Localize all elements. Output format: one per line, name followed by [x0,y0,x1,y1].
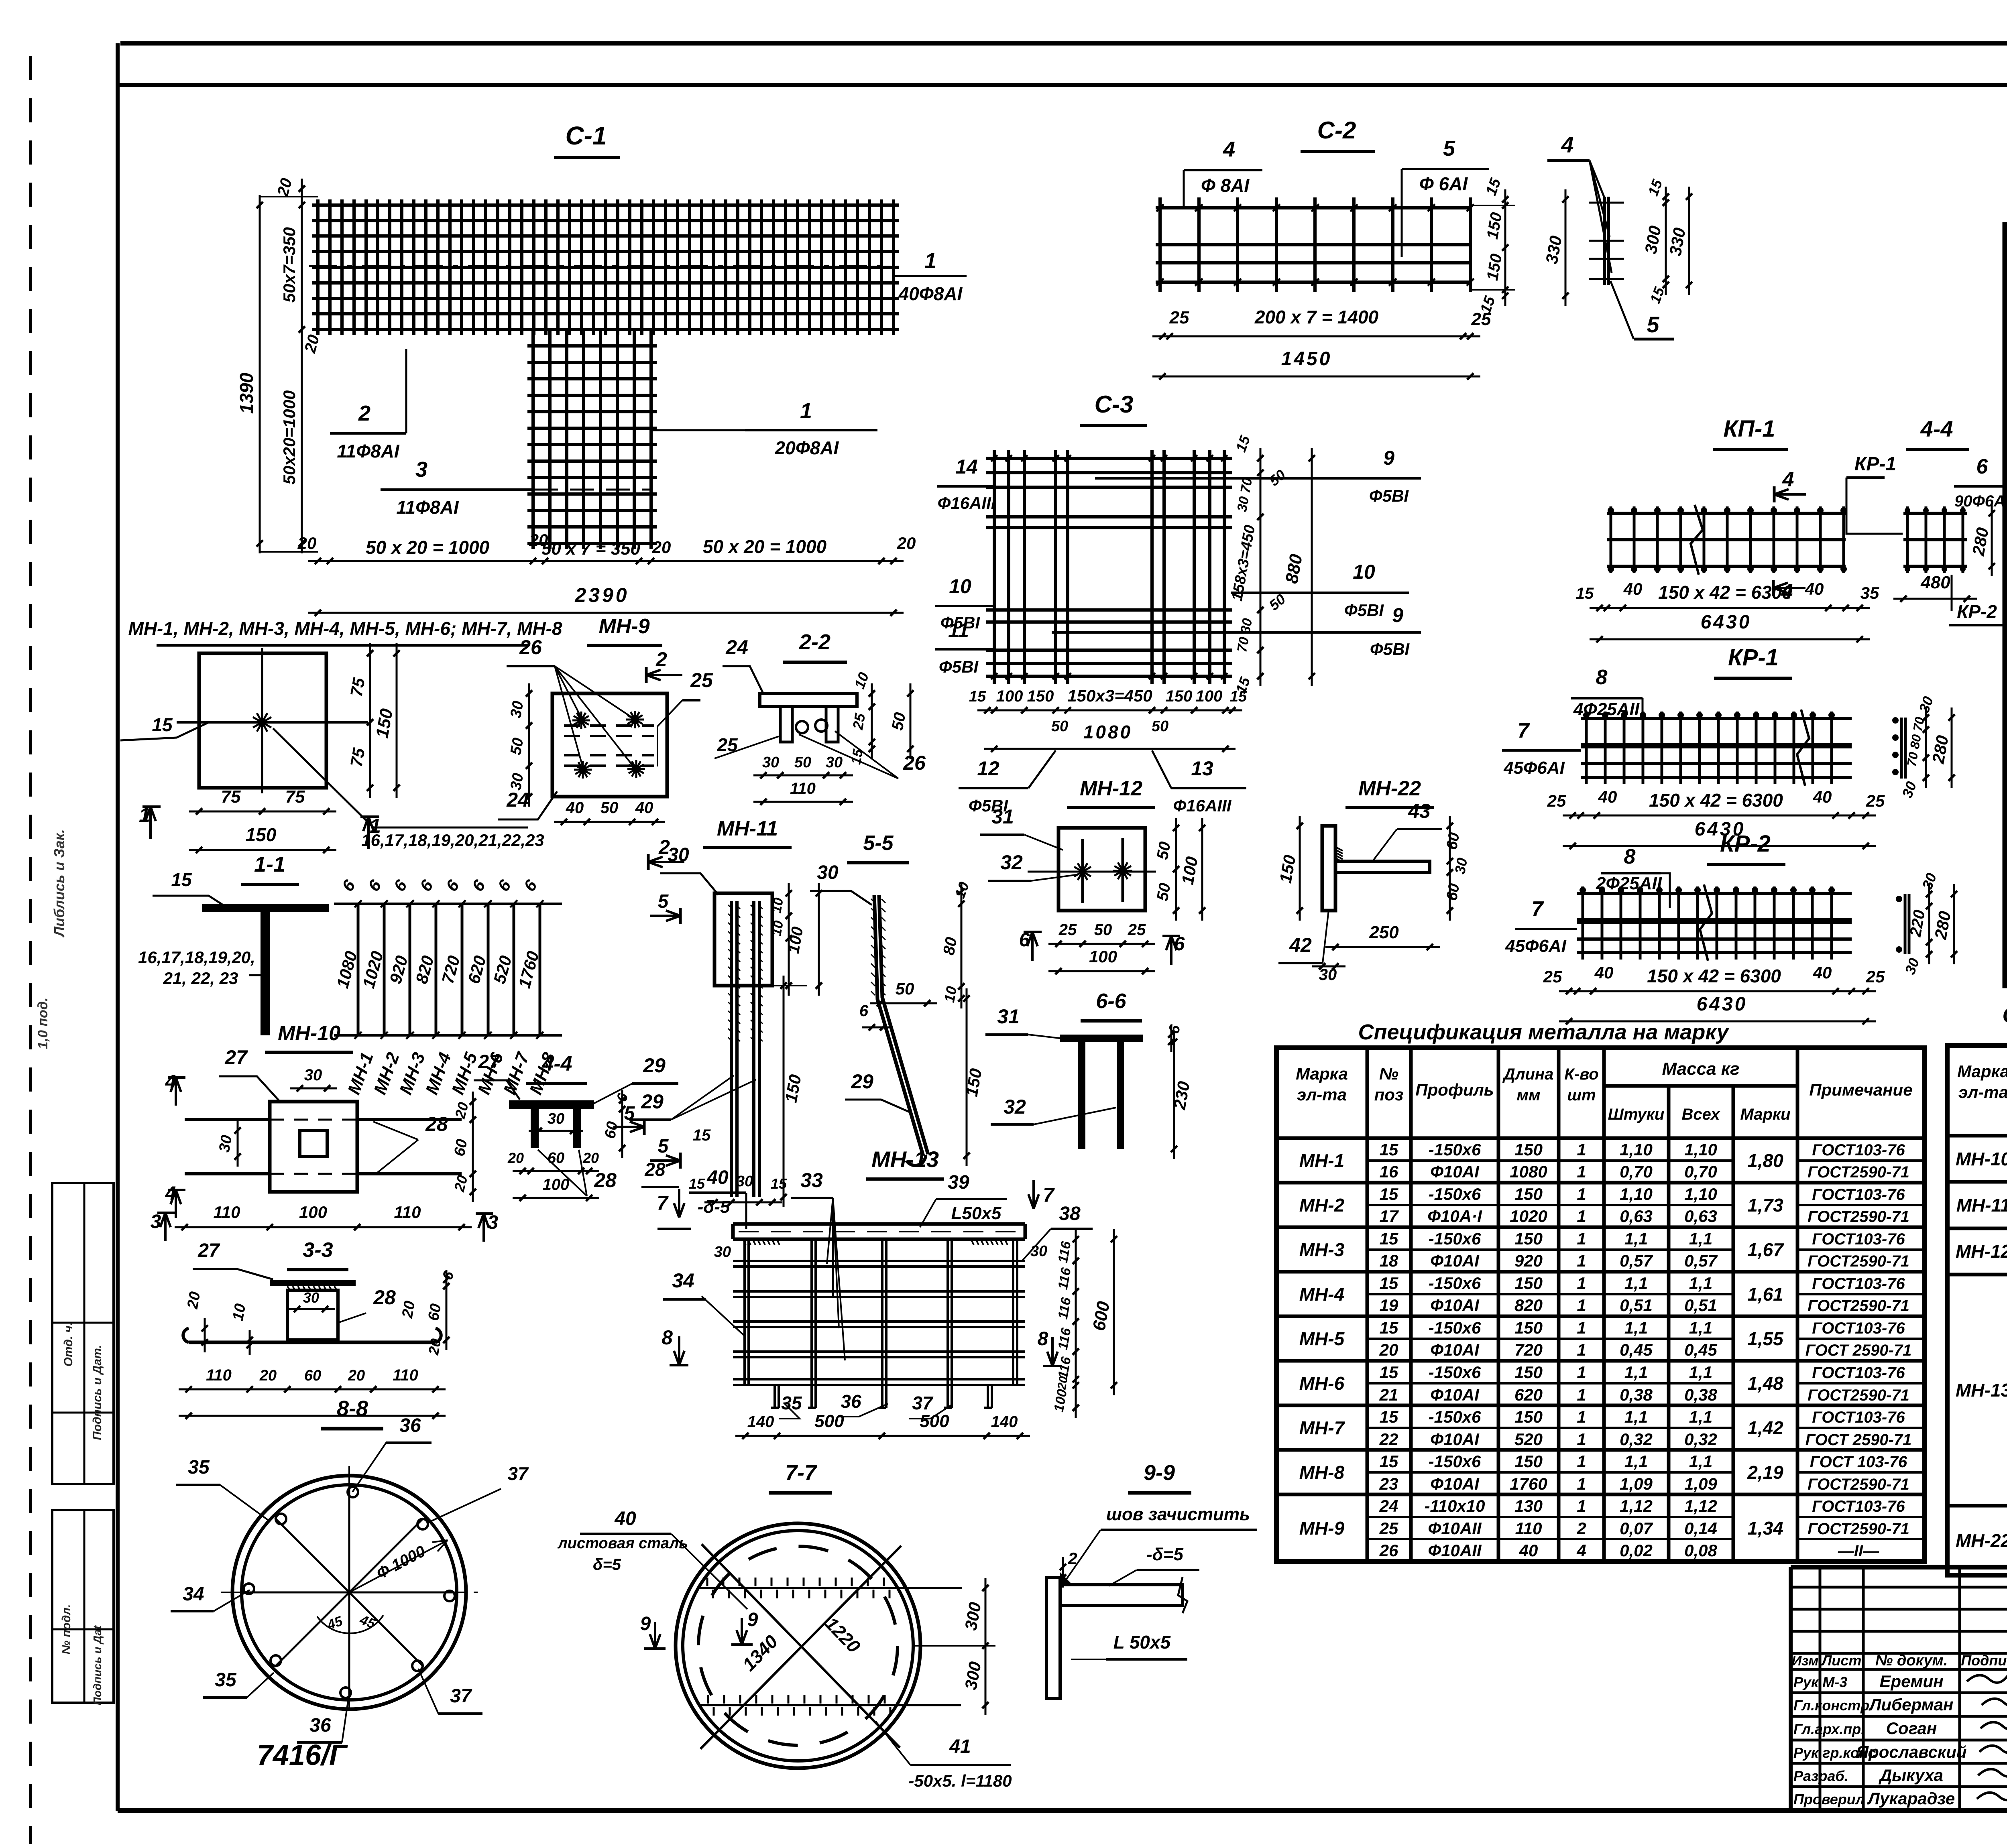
bars list block dividers [2005,450,2007,454]
svg-text:1-1: 1-1 [254,852,285,876]
svg-text:150 х 42 = 6300: 150 х 42 = 6300 [1647,966,1781,986]
svg-text:ГОСТ2590-71: ГОСТ2590-71 [1808,1297,1909,1315]
svg-text:К-во: К-во [1564,1065,1599,1083]
leader 16-23 [273,728,528,827]
svg-text:28: 28 [594,1169,617,1191]
9-9 horizontal plate [1060,1585,1183,1606]
svg-text:30: 30 [304,1066,322,1084]
spec left block lines [1276,1181,1925,1185]
svg-text:4: 4 [1223,137,1235,161]
svg-text:КР-2: КР-2 [1720,831,1771,857]
6-6 legs [1078,1042,1085,1149]
svg-text:поз: поз [1374,1085,1404,1104]
svg-text:40: 40 [1805,579,1824,598]
svg-text:20: 20 [652,538,671,557]
svg-text:КР-1: КР-1 [1728,644,1779,671]
svg-text:20: 20 [507,1150,524,1166]
svg-text:50 х 20 = 1000: 50 х 20 = 1000 [703,536,827,557]
svg-text:6430: 6430 [1697,994,1748,1015]
svg-text:ГОСТ2590-71: ГОСТ2590-71 [1808,1387,1909,1404]
svg-text:16,17,18,19,20,21,22,23: 16,17,18,19,20,21,22,23 [361,831,544,850]
svg-text:75: 75 [285,787,305,807]
svg-text:28: 28 [373,1286,396,1309]
2-2 legs [780,707,792,742]
9-9 weld triangle [1060,1572,1073,1585]
svg-text:920: 920 [1514,1251,1543,1270]
MN-22 horizontal bar [1335,861,1430,872]
svg-text:0,70: 0,70 [1684,1162,1717,1181]
svg-text:19: 19 [1380,1296,1398,1315]
svg-text:7: 7 [657,1192,669,1214]
svg-text:28: 28 [644,1159,666,1180]
svg-text:75: 75 [347,676,369,698]
svg-text:150: 150 [1027,687,1054,705]
9-9 break mark [1178,1577,1187,1613]
svg-text:30: 30 [668,844,689,866]
svg-text:50: 50 [1094,921,1112,939]
MN-10 left dim 30 [237,1120,239,1167]
svg-text:ГОСТ103-76: ГОСТ103-76 [1812,1275,1905,1293]
svg-text:21: 21 [1379,1385,1398,1404]
svg-text:110: 110 [214,1203,240,1222]
svg-text:Ф10АІ: Ф10АІ [1430,1340,1480,1359]
svg-text:0,51: 0,51 [1620,1296,1653,1315]
spec right block lines [1947,1180,2007,1184]
svg-text:Ф 6АІ: Ф 6АІ [1419,173,1468,194]
svg-text:2Ф25АІІ: 2Ф25АІІ [1596,874,1662,893]
MN-11 hooked bars [730,901,733,1197]
sheet inner border top [118,83,2007,87]
svg-text:5: 5 [624,1103,635,1124]
5-5 dim 50 [870,1002,937,1004]
svg-text:-50х5. l=1180: -50х5. l=1180 [908,1771,1012,1790]
svg-text:37: 37 [912,1393,934,1413]
MN-13 rails [733,1260,1025,1262]
7-7 chord bands with hatch [698,1587,962,1589]
svg-text:Проверил: Проверил [1793,1791,1865,1807]
svg-text:20: 20 [425,1338,444,1357]
svg-text:33: 33 [800,1169,823,1191]
svg-text:32: 32 [1003,1096,1026,1118]
svg-text:140: 140 [747,1413,774,1431]
svg-text:30: 30 [548,1110,564,1127]
svg-text:18: 18 [1380,1251,1398,1270]
svg-text:25: 25 [1169,308,1189,327]
svg-text:25: 25 [1866,791,1885,810]
C-3 bottom dim chain [977,710,1242,712]
MN-9 left dims [528,683,530,807]
svg-text:60: 60 [425,1302,445,1322]
svg-text:40: 40 [1813,963,1832,982]
svg-text:-150х6: -150х6 [1429,1363,1481,1382]
svg-text:1,1: 1,1 [1689,1407,1712,1426]
svg-text:7: 7 [1518,719,1530,742]
C-2 section dims 300 330 [1665,187,1667,295]
7-7 cross diagonals [700,1546,901,1749]
svg-text:2390: 2390 [574,584,629,606]
trim edge dashed left [29,56,32,1844]
svg-text:130: 130 [1514,1496,1543,1515]
MN-13 right dims 116 [1075,1229,1077,1418]
mesh C-1 stem grid [531,329,535,549]
svg-text:Ф5ВІ: Ф5ВІ [1369,486,1409,505]
svg-text:Подпись: Подпись [1961,1652,2007,1669]
svg-text:25: 25 [1543,967,1562,986]
svg-text:0,70: 0,70 [1620,1162,1653,1181]
7-7 inner dashed circle [698,1546,898,1745]
KR-1 overall 6430 [1563,845,1876,847]
svg-text:С-1: С-1 [565,121,607,150]
svg-text:-δ=5: -δ=5 [1146,1545,1183,1564]
svg-text:шт: шт [1567,1086,1596,1104]
svg-text:2,19: 2,19 [1747,1462,1783,1483]
svg-text:КР-2: КР-2 [1957,601,1997,622]
svg-text:27: 27 [224,1046,248,1069]
C-3 overall 1080 [984,748,1236,750]
svg-text:20: 20 [184,1290,204,1310]
svg-text:МН-10: МН-10 [1956,1149,2007,1169]
svg-text:26: 26 [1379,1541,1398,1560]
svg-text:75: 75 [347,746,369,768]
mesh C-3 grid [993,450,996,684]
svg-text:эл-та: эл-та [1297,1085,1347,1104]
svg-text:6: 6 [859,1002,869,1020]
svg-text:ГОСТ103-76: ГОСТ103-76 [1812,1498,1905,1515]
svg-text:МН-5: МН-5 [1299,1328,1345,1349]
svg-text:27: 27 [478,1051,501,1073]
svg-text:140: 140 [991,1413,1018,1431]
svg-text:Спецификация металла на мар: Спецификация металла на марку [1358,1020,1730,1044]
svg-text:1,1: 1,1 [1689,1452,1712,1471]
svg-text:32: 32 [1000,851,1023,874]
svg-text:листовая сталь: листовая сталь [557,1535,688,1552]
MN-10 top dim 30 [290,1088,337,1090]
C-2 bottom dims [1152,335,1480,337]
svg-text:35: 35 [215,1669,237,1691]
svg-text:-150х6: -150х6 [1429,1185,1481,1204]
svg-text:41: 41 [949,1736,971,1757]
svg-text:-150х6: -150х6 [1429,1274,1481,1293]
4-4b plate [509,1100,594,1109]
svg-text:1: 1 [1577,1474,1586,1493]
svg-text:МН-22: МН-22 [1956,1530,2007,1551]
svg-text:26: 26 [903,752,926,774]
2-2 hook circles [796,721,808,733]
svg-text:МН-8: МН-8 [1299,1462,1345,1483]
svg-text:0,38: 0,38 [1684,1385,1717,1404]
svg-text:36: 36 [309,1715,331,1736]
spec table right grid [1947,1045,2007,1575]
title block outline [1791,1565,2007,1569]
svg-text:3: 3 [415,457,427,482]
svg-text:ГОСТ103-76: ГОСТ103-76 [1812,1186,1905,1204]
svg-text:Всех: Всех [1681,1106,1720,1123]
svg-text:5: 5 [658,891,669,912]
MN-12 right dims [1175,818,1177,921]
KR-1 break mark [1797,710,1809,786]
svg-text:-150х6: -150х6 [1429,1229,1481,1248]
MN-13 legs [773,1385,776,1408]
svg-text:150 х 42 = 6300: 150 х 42 = 6300 [1649,790,1783,811]
svg-text:30: 30 [303,1289,319,1306]
svg-text:15: 15 [969,688,986,705]
svg-text:25: 25 [1058,921,1077,939]
svg-text:1,42: 1,42 [1747,1417,1783,1438]
svg-text:35: 35 [1860,583,1879,602]
wire 1 axis dash-dot [309,265,893,267]
svg-text:1,48: 1,48 [1747,1373,1783,1394]
3-3 block [287,1290,338,1340]
svg-text:Рук М-3: Рук М-3 [1793,1674,1847,1690]
svg-text:1,10: 1,10 [1684,1185,1717,1204]
svg-text:1: 1 [1577,1340,1586,1359]
svg-text:6-6: 6-6 [1096,990,1126,1013]
svg-text:КР-2: КР-2 [2005,727,2007,748]
svg-text:Марка: Марка [1957,1062,2007,1081]
svg-text:ГОСТ103-76: ГОСТ103-76 [1812,1141,1905,1159]
svg-text:МН-11: МН-11 [1956,1195,2007,1216]
svg-text:50: 50 [1152,718,1168,735]
4-4b dim 30 [529,1130,583,1132]
svg-text:20: 20 [582,1150,599,1166]
KR-2 rails [1577,892,1852,895]
svg-text:Еремин: Еремин [1879,1672,1943,1691]
label 1 40d8AI [894,275,967,277]
2-2 bottom dims [753,775,853,777]
svg-text:Ф16АІІІ: Ф16АІІІ [938,494,996,512]
4-4 dim 480 [1893,598,1977,600]
svg-text:25: 25 [1866,967,1885,986]
svg-text:17: 17 [1380,1207,1399,1226]
svg-text:8: 8 [1596,666,1608,689]
svg-text:1,61: 1,61 [1747,1284,1783,1305]
MN-10 bottom dims [175,1226,472,1228]
svg-text:С-3: С-3 [1095,391,1134,418]
MN-11 dim 150 [783,976,785,1207]
svg-text:0,02: 0,02 [1620,1541,1653,1560]
svg-text:Марка: Марка [1296,1064,1348,1083]
MN-13 bottom dims [735,1435,1030,1437]
svg-text:4: 4 [1576,1541,1586,1560]
svg-text:МН-12: МН-12 [1080,777,1142,800]
3-3 long bar with hooks [189,1341,436,1344]
svg-text:27: 27 [197,1240,220,1261]
svg-text:150: 150 [1514,1407,1543,1426]
section 4-4 mesh [1903,512,1967,515]
svg-text:11: 11 [948,619,969,642]
svg-text:10: 10 [1353,561,1375,583]
KP-1 overall 6430 [1590,638,1870,640]
svg-text:110: 110 [790,780,816,797]
svg-text:20: 20 [259,1367,277,1384]
MN-11 bottom dims [704,1202,782,1204]
svg-text:43: 43 [1408,800,1431,822]
svg-text:10: 10 [230,1302,249,1322]
svg-text:МН-13: МН-13 [871,1147,939,1172]
svg-text:Ф5ВІ: Ф5ВІ [1344,601,1384,620]
svg-text:40: 40 [1594,963,1614,982]
svg-text:мм: мм [1516,1086,1540,1104]
svg-text:50: 50 [794,754,811,771]
svg-text:Подпись и Дат.: Подпись и Дат. [91,1345,104,1440]
svg-text:1: 1 [1577,1452,1586,1471]
svg-text:25: 25 [690,669,713,691]
svg-text:34: 34 [672,1269,694,1292]
svg-text:Ф10АІІ: Ф10АІІ [1428,1541,1482,1560]
svg-text:40: 40 [706,1167,729,1188]
svg-text:34: 34 [183,1584,204,1605]
3-3 dim 30 inside [287,1308,335,1310]
svg-text:40: 40 [635,799,653,817]
svg-text:39: 39 [948,1172,969,1193]
svg-text:эл-та: эл-та [1958,1083,2007,1102]
svg-text:150: 150 [1514,1274,1543,1293]
MN-13 verticals [743,1239,746,1385]
KR-1 dim chain [1563,815,1876,817]
svg-text:15: 15 [1230,688,1247,705]
sheet border bottom [118,1808,2007,1813]
svg-text:4-4: 4-4 [1920,416,1953,441]
2-2 plate [760,693,857,707]
svg-text:110: 110 [206,1366,232,1384]
svg-text:Соган: Соган [1886,1719,1937,1738]
svg-text:50: 50 [1051,718,1068,735]
svg-text:Дыкуха: Дыкуха [1879,1766,1943,1785]
svg-text:3: 3 [488,1212,499,1233]
svg-text:5-5: 5-5 [863,831,894,855]
svg-text:15: 15 [1380,1363,1398,1382]
svg-text:14: 14 [955,455,978,478]
svg-text:60: 60 [1443,831,1463,851]
svg-text:15: 15 [1380,1185,1398,1204]
svg-text:ГОСТ103-76: ГОСТ103-76 [1812,1409,1905,1426]
svg-text:25: 25 [849,712,869,732]
MN-10 center hole [300,1130,327,1157]
bars list table grid [2005,225,2007,986]
4-4b bottom dims [513,1170,599,1172]
svg-text:150: 150 [246,824,277,845]
svg-text:29: 29 [851,1070,873,1093]
svg-text:δ=5: δ=5 [593,1556,621,1574]
mesh C-1 top band grid [316,199,320,335]
svg-text:50: 50 [507,736,527,756]
C-3 right dim chain [1260,448,1262,686]
8-8 center axes dash-dot [221,1592,478,1593]
spec left sub row lines [1367,1159,1559,1162]
svg-text:1: 1 [1577,1140,1586,1159]
3-3 right dims [446,1270,448,1350]
svg-text:9: 9 [1392,604,1403,626]
svg-text:1,80: 1,80 [1747,1150,1783,1171]
svg-text:30: 30 [762,754,779,771]
svg-text:3: 3 [151,1211,161,1232]
svg-text:1: 1 [1577,1430,1586,1449]
svg-text:Изм: Изм [1792,1653,1819,1669]
MN-22 bottom dims [1325,946,1440,948]
svg-text:Отд. ч.: Отд. ч. [62,1322,75,1367]
svg-text:80: 80 [940,936,961,956]
MN plate square [199,653,326,788]
signatures scribbles [1967,1671,2007,1683]
svg-text:11Ф8АІ: 11Ф8АІ [337,441,399,461]
svg-text:3-3: 3-3 [303,1238,333,1262]
KR-2 break mark [1700,884,1712,961]
svg-text:МН-10: МН-10 [278,1022,340,1045]
svg-text:Подпись и Даt: Подпись и Даt [91,1625,104,1705]
svg-text:ГОСТ 2590-71: ГОСТ 2590-71 [1805,1431,1912,1449]
svg-text:37: 37 [450,1685,472,1707]
svg-text:30: 30 [736,1173,753,1190]
5-5 bent bar [874,895,923,1156]
svg-text:4: 4 [1561,132,1573,157]
svg-text:МН-11: МН-11 [717,817,778,840]
svg-text:100: 100 [299,1203,327,1222]
svg-text:50: 50 [896,979,914,998]
MN-9 bottom dims [554,821,665,823]
svg-text:12: 12 [977,757,999,780]
svg-text:1,1: 1,1 [1624,1274,1648,1293]
svg-text:2: 2 [358,401,370,425]
KR-1 rails [1581,717,1852,720]
svg-text:15: 15 [171,869,192,890]
svg-text:МН-2: МН-2 [1299,1195,1345,1216]
svg-text:Ф16АІІІ: Ф16АІІІ [1173,796,1232,815]
svg-text:ГОСТ 2590-71: ГОСТ 2590-71 [1805,1342,1912,1359]
MN-13 top plate [733,1222,1025,1226]
svg-text:Гл.арх.пр.: Гл.арх.пр. [1793,1721,1865,1737]
svg-text:№ подл.: № подл. [60,1604,73,1655]
svg-text:9: 9 [747,1609,758,1630]
svg-text:15: 15 [693,1126,711,1144]
svg-text:0,38: 0,38 [1620,1385,1653,1404]
svg-text:1,1: 1,1 [1624,1318,1648,1337]
svg-text:13: 13 [1191,757,1213,780]
svg-text:Ф10АІ: Ф10АІ [1430,1162,1480,1181]
svg-text:МН-22: МН-22 [1358,777,1421,800]
svg-text:1080: 1080 [1083,722,1132,742]
MN-13 right dim 600 [1113,1229,1115,1395]
svg-text:22: 22 [1379,1430,1398,1449]
svg-text:Ярославский: Ярославский [1856,1742,1966,1761]
svg-text:1: 1 [1577,1185,1586,1204]
svg-text:МН-9: МН-9 [598,615,649,638]
svg-text:Ф10АІ: Ф10АІ [1430,1474,1480,1493]
title block small grid rows [1791,1586,2007,1589]
svg-text:МН-13: МН-13 [1956,1380,2007,1401]
left margin table lower [52,1510,114,1703]
svg-text:30: 30 [216,1134,236,1153]
svg-text:50 х 20 = 1000: 50 х 20 = 1000 [366,537,490,558]
svg-text:16: 16 [1380,1162,1398,1181]
svg-text:25: 25 [1379,1519,1398,1538]
KP-1 dim chain [1590,607,1870,609]
C-2 right dim chain 15 150 150 15 [1504,189,1506,306]
4-4 dim 280 [1991,503,1993,576]
svg-text:0,07: 0,07 [1620,1519,1653,1538]
svg-text:50: 50 [600,799,619,817]
svg-text:20: 20 [1379,1340,1398,1359]
KP-1 rails [1607,512,1846,515]
svg-text:МН-1: МН-1 [1299,1150,1344,1171]
svg-text:60: 60 [1443,882,1463,902]
8-8 spokes [349,1592,454,1594]
svg-text:150: 150 [1514,1140,1543,1159]
svg-text:шов зачистить: шов зачистить [1106,1504,1250,1524]
svg-text:150: 150 [1514,1318,1543,1337]
svg-text:100: 100 [543,1176,570,1193]
C-1 left dim 1390 [259,195,261,553]
left margin table upper [52,1183,114,1484]
